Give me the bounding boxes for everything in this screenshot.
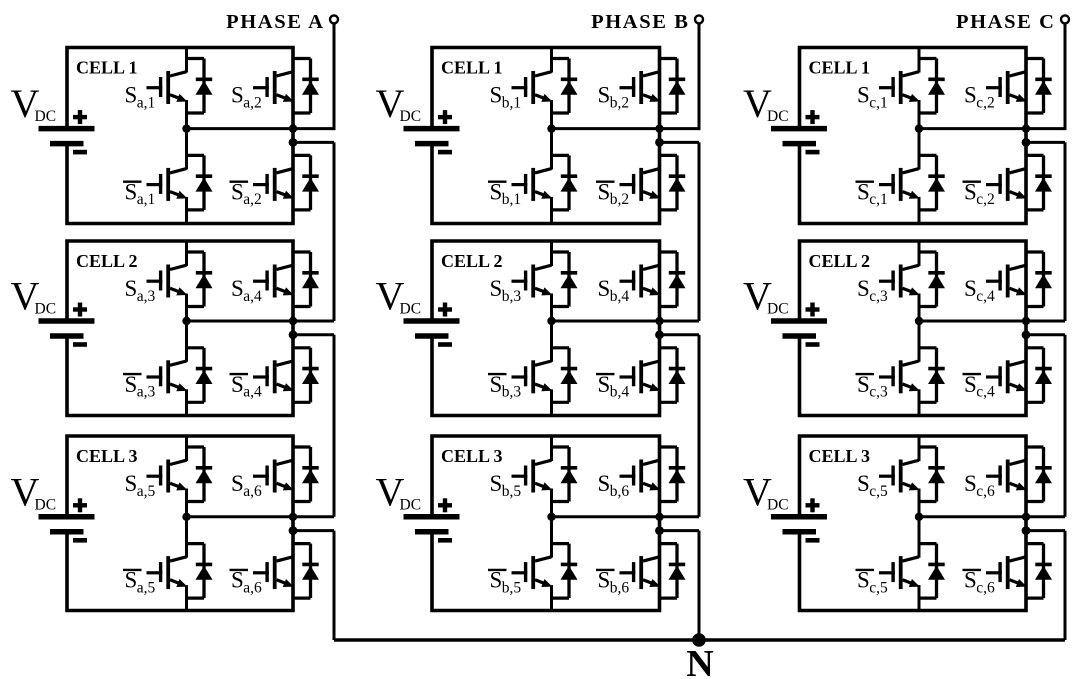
freewheeling diode of Sc,1 [918,59,945,114]
DC source V_DC positive plate (cell 3, phase C) [771,514,827,520]
node: leg2 midpoint junction [1022,317,1030,325]
svg-text:b,2: b,2 [610,94,629,111]
wire: output jog of cell 3 [293,529,334,532]
svg-text:b,6: b,6 [610,483,630,500]
node: cell 1 output junction [1022,138,1031,147]
svg-text:a,4: a,4 [243,288,262,305]
svg-text:b,1: b,1 [502,191,521,208]
cell 1 box (phase C) [800,48,1027,224]
label Sb,2 [598,83,630,112]
DC source V_DC negative plate [50,529,84,535]
freewheeling diode of Sa,2 [292,59,319,114]
label /Sc,2 [963,179,995,208]
wire: output jog of cell 2 [293,333,334,336]
cell 2 box (phase A) [67,241,293,416]
freewheeling diode of /Sc,3 [918,348,945,403]
svg-text:c,1: c,1 [869,191,888,208]
transistor /Sc,1 IGBT [879,128,920,223]
transistor Sb,3 IGBT [512,241,553,323]
freewheeling diode of /Sc,2 [1025,155,1052,210]
transistor /Sc,3 IGBT [879,321,920,416]
transistor /Sc,4 IGBT [986,321,1027,416]
svg-text:S: S [964,568,977,593]
DC source V_DC positive plate (cell 3, phase A) [39,514,95,520]
transistor /Sc,2 IGBT [986,128,1027,223]
svg-text:b,1: b,1 [502,94,521,111]
freewheeling diode of Sc,5 [918,447,945,502]
DC source V_DC negative plate [415,529,449,535]
node: cell 3 output junction [1022,526,1031,535]
polarity mark - [806,150,820,155]
wire: link cell 3 output down to neutral rail [1064,531,1067,640]
svg-text:S: S [857,276,870,301]
label /Sa,3 [123,372,155,401]
transistor Sc,6 IGBT [986,436,1027,518]
node N [692,633,706,647]
polarity mark + [438,110,452,124]
wire: output jog of cell 1 [660,141,700,144]
label Sc,3 [857,276,888,305]
label V_DC [376,274,422,319]
label Sc,1 [857,83,888,112]
wire: cell 2 mid rail (phase B) [552,320,700,323]
svg-text:DC: DC [400,108,422,125]
transistor Sb,4 IGBT [620,241,661,323]
svg-text:S: S [598,471,611,496]
wire: link cell 1 output down to cell 2 mid rail [1064,142,1067,321]
wire: phase C bus from terminal down to cell 1 output node [1064,23,1067,130]
polarity mark - [438,538,452,543]
label /Sc,6 [963,568,995,597]
transistor /Sb,2 IGBT [620,128,661,223]
DC source V_DC positive plate (cell 2, phase C) [771,318,827,324]
wire: phase A bus from terminal down to cell 1 output node [333,23,336,130]
wire: link cell 1 output down to cell 2 mid rail [698,142,701,321]
DC source V_DC negative plate [783,529,817,535]
node: leg1 midpoint junction [915,124,923,132]
svg-text:DC: DC [35,301,57,318]
transistor Sa,1 IGBT [147,47,188,129]
transistor /Sa,3 IGBT [147,321,188,416]
wire: cell 2 mid rail (phase A) [187,320,335,323]
svg-text:S: S [857,179,870,204]
svg-text:c,5: c,5 [869,483,888,500]
wire: neutral rail N [334,638,1065,641]
node: leg2 midpoint junction [289,317,297,325]
svg-text:S: S [231,179,244,204]
svg-text:a,1: a,1 [137,191,156,208]
transistor Sb,6 IGBT [620,436,661,518]
transistor Sa,5 IGBT [147,436,188,518]
svg-text:S: S [231,83,244,108]
DC source V_DC negative plate [783,141,817,147]
label /Sa,5 [123,568,155,597]
node: leg2 midpoint junction [289,124,297,132]
wire: link cell 3 output down to neutral rail [698,531,701,640]
freewheeling diode of Sc,3 [918,252,945,307]
label /Sb,6 [596,568,629,597]
label V_DC [11,274,57,319]
label /Sa,4 [230,372,262,401]
svg-text:S: S [598,179,611,204]
freewheeling diode of /Sa,4 [292,348,319,403]
DC source V_DC positive plate (cell 1, phase A) [39,126,95,132]
DC source V_DC positive plate (cell 1, phase B) [404,126,460,132]
transistor /Sb,4 IGBT [620,321,661,416]
svg-text:S: S [231,471,244,496]
svg-text:c,3: c,3 [869,384,888,401]
polarity mark - [438,150,452,155]
svg-text:S: S [964,179,977,204]
svg-text:DC: DC [35,496,57,513]
svg-text:a,6: a,6 [243,579,262,596]
label Sa,6 [231,471,262,500]
cell 2 box (phase C) [800,241,1027,416]
polarity mark + [73,110,87,124]
freewheeling diode of Sc,6 [1025,447,1052,502]
svg-text:c,6: c,6 [976,579,995,596]
label /Sa,6 [230,568,262,597]
transistor Sc,5 IGBT [879,436,920,518]
transistor /Sa,6 IGBT [253,517,294,612]
svg-text:S: S [125,568,138,593]
polarity mark - [438,342,452,347]
svg-text:S: S [857,372,870,397]
node: leg1 midpoint junction [915,317,923,325]
svg-text:DC: DC [400,496,422,513]
transistor Sb,5 IGBT [512,436,553,518]
svg-text:S: S [125,471,138,496]
DC source V_DC positive plate (cell 2, phase A) [39,318,95,324]
polarity mark + [73,303,87,317]
freewheeling diode of /Sb,5 [551,544,578,599]
svg-text:CELL 2: CELL 2 [76,251,138,271]
freewheeling diode of /Sc,1 [918,155,945,210]
label Sc,6 [964,471,995,500]
svg-text:PHASE C: PHASE C [956,11,1055,33]
node: cell 3 output junction [655,526,664,535]
label /Sb,1 [488,179,521,208]
svg-text:CELL 2: CELL 2 [441,251,503,271]
wire: link cell 1 output down to cell 2 mid rail [333,142,336,321]
svg-text:a,1: a,1 [137,94,156,111]
freewheeling diode of Sa,4 [292,252,319,307]
wire: phase B bus from terminal down to cell 1 output node [698,23,701,130]
svg-text:S: S [125,276,138,301]
node: leg2 midpoint junction [289,513,297,521]
node: cell 1 output junction [655,138,664,147]
node: cell 2 output junction [289,330,298,339]
wire: cell 2 mid rail (phase C) [919,320,1065,323]
DC source V_DC positive plate (cell 1, phase C) [771,126,827,132]
label /Sa,2 [230,179,262,208]
wire: link cell 3 output down to neutral rail [333,531,336,640]
label V_DC [376,469,422,514]
label Sa,2 [231,83,262,112]
cell 2 box (phase B) [432,241,660,416]
wire: cell 3 mid rail (phase C) [919,515,1065,518]
label /Sb,2 [596,179,629,208]
svg-text:N: N [686,643,713,679]
svg-text:S: S [231,276,244,301]
label /Sc,1 [856,179,888,208]
transistor Sc,3 IGBT [879,241,920,323]
transistor /Sc,5 IGBT [879,517,920,612]
wire: cell 1 mid rail (phase A) [187,127,335,130]
svg-text:DC: DC [400,301,422,318]
freewheeling diode of Sa,6 [292,447,319,502]
label Sa,4 [231,276,262,305]
svg-text:CELL 1: CELL 1 [76,58,138,78]
DC source V_DC negative plate [50,333,84,339]
polarity mark + [438,303,452,317]
transistor Sb,2 IGBT [620,47,661,129]
node: leg2 midpoint junction [655,513,663,521]
polarity mark + [73,498,87,512]
node: leg2 midpoint junction [655,124,663,132]
svg-text:CELL 3: CELL 3 [809,446,871,466]
polarity mark - [806,342,820,347]
wire: link cell 2 output down to cell 3 mid rail [698,335,701,517]
label V_DC [743,469,789,514]
polarity mark + [438,498,452,512]
node: leg1 midpoint junction [182,317,190,325]
freewheeling diode of /Sc,4 [1025,348,1052,403]
node: leg1 midpoint junction [547,317,555,325]
node: leg1 midpoint junction [547,124,555,132]
node: cell 1 output junction [289,138,298,147]
svg-text:S: S [598,83,611,108]
svg-text:CELL 3: CELL 3 [76,446,138,466]
svg-text:a,5: a,5 [137,579,156,596]
transistor /Sa,4 IGBT [253,321,294,416]
svg-text:DC: DC [767,301,789,318]
svg-text:c,2: c,2 [976,191,995,208]
svg-text:PHASE B: PHASE B [591,11,689,33]
wire: output jog of cell 1 [1026,141,1065,144]
svg-text:CELL 1: CELL 1 [809,58,871,78]
freewheeling diode of Sb,5 [551,447,578,502]
svg-text:c,3: c,3 [869,288,888,305]
transistor Sc,2 IGBT [986,47,1027,129]
svg-text:S: S [857,568,870,593]
wire: link cell 2 output down to cell 3 mid rail [333,335,336,517]
label Sb,1 [490,83,522,112]
transistor /Sa,1 IGBT [147,128,188,223]
svg-text:b,5: b,5 [502,483,522,500]
wire: output jog of cell 2 [660,333,700,336]
svg-text:S: S [964,83,977,108]
svg-text:b,3: b,3 [502,384,522,401]
svg-text:CELL 1: CELL 1 [441,58,503,78]
label /Sa,1 [123,179,155,208]
svg-text:b,5: b,5 [502,579,522,596]
svg-text:S: S [231,372,244,397]
transistor /Sc,6 IGBT [986,517,1027,612]
svg-text:S: S [598,372,611,397]
node: leg1 midpoint junction [182,513,190,521]
polarity mark - [73,150,87,155]
transistor Sa,2 IGBT [253,47,294,129]
label /Sb,3 [488,372,521,401]
svg-text:S: S [490,83,503,108]
svg-text:c,2: c,2 [976,94,995,111]
svg-text:S: S [125,372,138,397]
polarity mark - [73,342,87,347]
svg-text:S: S [125,83,138,108]
node: leg1 midpoint junction [182,124,190,132]
wire: cell 3 mid rail (phase B) [552,515,700,518]
freewheeling diode of Sa,1 [186,59,213,114]
freewheeling diode of /Sb,6 [659,544,686,599]
wire: output jog of cell 3 [660,529,700,532]
svg-text:S: S [964,471,977,496]
transistor /Sa,2 IGBT [253,128,294,223]
node: cell 3 output junction [289,526,298,535]
svg-text:a,3: a,3 [137,384,156,401]
svg-text:S: S [964,372,977,397]
svg-text:b,6: b,6 [610,579,630,596]
PHASE C output terminal [1061,15,1069,23]
wire: output jog of cell 1 [293,141,334,144]
freewheeling diode of Sb,3 [551,252,578,307]
label Sc,5 [857,471,888,500]
svg-text:S: S [964,276,977,301]
svg-text:S: S [490,568,503,593]
transistor Sc,4 IGBT [986,241,1027,323]
svg-text:c,4: c,4 [976,384,995,401]
transistor /Sb,3 IGBT [512,321,553,416]
transistor Sa,4 IGBT [253,241,294,323]
DC source V_DC negative plate [783,333,817,339]
wire: output jog of cell 3 [1026,529,1065,532]
transistor Sb,1 IGBT [512,47,553,129]
freewheeling diode of /Sc,6 [1025,544,1052,599]
freewheeling diode of /Sb,2 [659,155,686,210]
label Sb,5 [490,471,522,500]
DC source V_DC positive plate (cell 2, phase B) [404,318,460,324]
label V_DC [376,81,422,126]
svg-text:PHASE A: PHASE A [226,11,324,33]
node: leg1 midpoint junction [547,513,555,521]
node: leg2 midpoint junction [1022,124,1030,132]
freewheeling diode of Sc,2 [1025,59,1052,114]
svg-text:S: S [857,83,870,108]
svg-text:S: S [857,471,870,496]
cell 3 box (phase B) [432,436,660,611]
svg-text:S: S [490,276,503,301]
svg-text:a,2: a,2 [243,191,262,208]
svg-text:a,5: a,5 [137,483,156,500]
node: cell 2 output junction [1022,330,1031,339]
wire: link cell 2 output down to cell 3 mid rail [1064,335,1067,517]
svg-text:c,5: c,5 [869,579,888,596]
svg-text:a,6: a,6 [243,483,262,500]
label /Sc,5 [856,568,888,597]
freewheeling diode of /Sa,2 [292,155,319,210]
freewheeling diode of /Sb,1 [551,155,578,210]
freewheeling diode of Sb,4 [659,252,686,307]
transistor Sc,1 IGBT [879,47,920,129]
freewheeling diode of Sa,5 [186,447,213,502]
transistor /Sa,5 IGBT [147,517,188,612]
node: cell 2 output junction [655,330,664,339]
polarity mark - [73,538,87,543]
freewheeling diode of /Sa,3 [186,348,213,403]
transistor /Sb,1 IGBT [512,128,553,223]
svg-text:DC: DC [35,108,57,125]
cell 3 box (phase C) [800,436,1027,611]
label /Sb,5 [488,568,521,597]
freewheeling diode of Sb,1 [551,59,578,114]
transistor Sa,3 IGBT [147,241,188,323]
label Sb,6 [598,471,630,500]
node: leg2 midpoint junction [655,317,663,325]
freewheeling diode of Sb,2 [659,59,686,114]
svg-text:DC: DC [767,496,789,513]
label /Sc,3 [856,372,888,401]
DC source V_DC negative plate [415,333,449,339]
svg-text:a,3: a,3 [137,288,156,305]
DC source V_DC positive plate (cell 3, phase B) [404,514,460,520]
transistor /Sb,6 IGBT [620,517,661,612]
freewheeling diode of /Sa,5 [186,544,213,599]
PHASE A output terminal [330,15,338,23]
label Sa,3 [125,276,156,305]
svg-text:a,4: a,4 [243,384,262,401]
svg-text:CELL 2: CELL 2 [809,251,871,271]
wire: output jog of cell 2 [1026,333,1065,336]
label /Sc,4 [963,372,995,401]
freewheeling diode of /Sa,1 [186,155,213,210]
transistor /Sb,5 IGBT [512,517,553,612]
svg-text:S: S [490,471,503,496]
label Sa,5 [125,471,156,500]
wire: cell 1 mid rail (phase C) [919,127,1065,130]
svg-text:b,4: b,4 [610,288,630,305]
node: leg2 midpoint junction [1022,513,1030,521]
node: leg1 midpoint junction [915,513,923,521]
freewheeling diode of /Sb,3 [551,348,578,403]
label V_DC [743,274,789,319]
svg-text:S: S [490,372,503,397]
freewheeling diode of /Sc,5 [918,544,945,599]
freewheeling diode of /Sb,4 [659,348,686,403]
wire: cell 3 mid rail (phase A) [187,515,335,518]
label Sb,3 [490,276,522,305]
PHASE B output terminal [695,15,703,23]
svg-text:S: S [231,568,244,593]
cell 1 box (phase B) [432,48,660,224]
DC source V_DC negative plate [50,141,84,147]
freewheeling diode of Sc,4 [1025,252,1052,307]
label V_DC [11,469,57,514]
DC source V_DC negative plate [415,141,449,147]
svg-text:c,6: c,6 [976,483,995,500]
svg-text:b,2: b,2 [610,191,629,208]
svg-text:c,4: c,4 [976,288,995,305]
freewheeling diode of /Sa,6 [292,544,319,599]
label /Sb,4 [596,372,629,401]
svg-text:S: S [598,276,611,301]
svg-text:S: S [598,568,611,593]
polarity mark - [806,538,820,543]
freewheeling diode of Sa,3 [186,252,213,307]
svg-text:c,1: c,1 [869,94,888,111]
freewheeling diode of Sb,6 [659,447,686,502]
polarity mark + [806,110,820,124]
svg-text:CELL 3: CELL 3 [441,446,503,466]
